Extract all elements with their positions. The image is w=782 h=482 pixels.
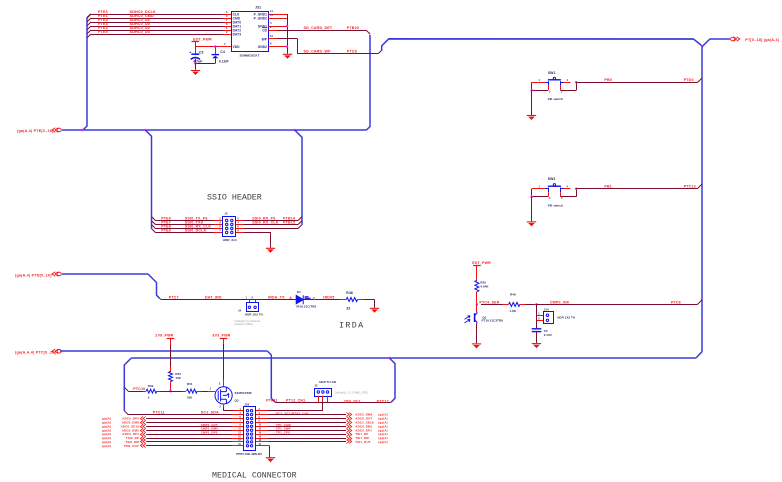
svg-text:PTA11: PTA11 [266,399,278,403]
svg-text:4: 4 [567,184,569,188]
svg-text:PTB15: PTB15 [283,221,295,225]
svg-text:P_GND2: P_GND2 [254,16,267,20]
svg-text:VDD: VDD [233,45,241,49]
text CD overline [262,27,267,29]
svg-text:IRD05: IRD05 [323,296,334,300]
svg-text:0.1UF: 0.1UF [219,59,229,63]
transistor Q3 ZXM61P03F [215,387,232,404]
wire SDHC0_D1 [87,22,91,26]
wire SD_CARD_WP [268,38,277,40]
svg-text:CMP1_DP0: CMP1_DP0 [201,431,218,435]
svg-text:3: 3 [270,21,272,25]
wire J2 pin2 down to DC1_SCL [322,402,324,411]
svg-text:11: 11 [270,9,273,13]
svg-text:SDHC0_D3: SDHC0_D3 [130,30,150,34]
svg-text:J18: J18 [244,402,249,406]
node junction SW2 left [530,195,533,198]
svg-text:EXT_PWR: EXT_PWR [472,261,491,265]
bus wire medical left leg [124,358,131,411]
wire SSIO pin8 to ground [236,232,244,234]
svg-text:2: 2 [219,381,221,385]
svg-text:J14: J14 [544,307,549,311]
svg-text:A: A [289,296,292,300]
wire SSI0_TX_FS [152,217,156,221]
node junction caps [194,62,197,64]
svg-text:R51: R51 [187,382,193,386]
wire PTA11 row [275,402,391,404]
wire SW2 to bus [576,188,697,190]
wire to J14 [536,304,538,320]
svg-text:PB switch: PB switch [548,97,563,101]
wire SSIO right row1 [236,220,244,222]
svg-text:PTE9: PTE9 [161,229,171,233]
svg-text:DAT3: DAT3 [233,32,242,36]
wire SDHC0_D0 [87,26,91,30]
svg-text:SSI0_RX_CLK: SSI0_RX_CLK [252,221,279,225]
wire GND2 stub [268,46,287,48]
wire left ADC0_DM1 [146,430,231,432]
bus wire SSIO left drop [145,130,151,229]
svg-text:200: 200 [187,396,192,400]
svg-text:J31: J31 [255,6,261,10]
wire 2V9 feed [170,338,172,345]
svg-text:SD_CARD_WP: SD_CARD_WP [304,50,332,54]
wire right ADC0_OUT [256,418,268,420]
svg-text:DAT_IRD: DAT_IRD [205,295,222,299]
svg-text:R49: R49 [148,384,154,388]
svg-text:EXT_PWR: EXT_PWR [193,37,212,41]
svg-text:CMP0_IN0: CMP0_IN0 [550,301,569,305]
node junction gate divider [169,390,172,393]
ground below J31 [283,53,292,55]
svg-text:PTC11: PTC11 [153,411,165,415]
wire SDHC0_CMD [87,18,91,22]
svg-text:14: 14 [259,431,262,434]
svg-text:PTE5: PTE5 [98,30,108,34]
svg-text:PTD0: PTD0 [684,78,694,82]
svg-text:J2: J2 [314,384,318,388]
svg-text:PTC10: PTC10 [133,387,145,391]
svg-text:D4: D4 [297,290,301,294]
svg-text:GND2: GND2 [258,45,267,49]
svg-text:4: 4 [224,42,226,46]
bus wire medical right leg [389,358,395,402]
svg-text:C3: C3 [199,50,204,54]
svg-text:WP: WP [262,37,268,41]
svg-text:HDR_2x4: HDR_2x4 [223,238,237,242]
svg-text:NoPop(1): 1:1 (70MIL_GPS): NoPop(1): 1:1 (70MIL_GPS) [335,390,368,394]
svg-text:IRDA_TX: IRDA_TX [268,295,285,299]
bus wire IRDA horizontal [62,273,148,275]
svg-text:3V3_PWR: 3V3_PWR [212,334,230,338]
svg-text:TSI1_OUT: TSI1_OUT [355,440,370,444]
connector J14 HDR 1X2 TH [537,315,544,317]
wire left TSI0_OUT [146,445,231,447]
svg-text:33: 33 [346,307,350,311]
bus wire main top y130 [62,129,367,131]
wire left TSI0_DM [146,441,231,443]
node junction GND1 [286,25,289,28]
svg-text:PB0: PB0 [604,78,612,82]
wire SSI0_TXD [152,221,156,225]
svg-text:1: 1 [539,184,541,188]
wire P_GND1 stub [268,14,287,16]
wire to Q3 gate [201,391,208,393]
svg-text:2V9_PWR: 2V9_PWR [155,334,173,338]
wire SDHC0_D2 [87,30,91,34]
svg-text:PTC8: PTC8 [347,50,357,54]
wire CMP0_IN0 to bus [537,304,698,306]
node junction SW1 right [575,81,578,84]
connector J4 HDR 1X2 TH [249,300,251,304]
wire right ADC0_DP1 [256,430,268,432]
svg-text:SW1: SW1 [548,71,556,75]
svg-text:PB switch: PB switch [548,204,563,208]
resistor R46 33 [341,299,346,301]
svg-text:SSIO HEADER: SSIO HEADER [207,194,262,203]
svg-text:(location 70MIL): (location 70MIL) [235,322,254,326]
node junction bus right-leg [388,357,391,360]
svg-text:PT[0..18] (ga(A,4): PT[0..18] (ga(A,4) [745,38,779,42]
svg-text:R48: R48 [510,292,516,296]
wire left ADC0_DP1 [146,434,231,436]
node junction PTC4_SEN [476,303,479,306]
wire junction to R51 [171,391,184,393]
svg-text:1: 1 [219,216,221,220]
wire 3V3 to Q3 source [223,338,225,344]
wire right ADC0_DM1 [256,426,268,428]
transistor Q1 phototransistor [476,304,478,312]
svg-text:(ga(A,4) PTE[0..26]: (ga(A,4) PTE[0..26] [17,129,54,133]
svg-text:SSI0_DCLK: SSI0_DCLK [185,229,207,233]
wire VDD supply [195,42,197,47]
wire comparator input [481,304,503,306]
svg-text:PTC4_SEN: PTC4_SEN [479,301,499,305]
wire SW2 to ground [531,197,533,222]
svg-text:SW2: SW2 [548,177,556,181]
bus wire SSIO right drop [295,130,302,225]
wire pin20 to ground [256,445,270,447]
wire DC1_SCL row [256,410,268,412]
svg-text:(ga(A,A,4) PTC[0..26]: (ga(A,A,4) PTC[0..26] [15,350,56,354]
node junction GND2 [286,45,289,48]
node junction SW2 right [575,187,578,190]
connector J18 PPPC102LJBN-RC [244,407,256,451]
svg-text:10: 10 [270,34,273,38]
svg-text:4: 4 [567,78,569,82]
wire SW1 to bus [576,82,697,84]
ground below J3 [266,247,275,249]
svg-text:J4: J4 [238,309,242,313]
svg-text:4.64K: 4.64K [480,284,489,288]
wire right ADC1_SE18 [256,422,268,424]
svg-text:0: 0 [148,396,150,400]
ground IRDA [370,307,379,309]
svg-text:R46: R46 [346,291,353,295]
wire SSIO right row3 [236,228,244,230]
wire GND1 stub [268,26,287,28]
svg-text:PTC7: PTC7 [169,295,179,299]
wire ground rail right of J31 [287,14,289,54]
wire SD_CARD_DET [268,30,277,32]
connector J3 HDR_2x4 [223,217,236,237]
capacitor C5 0.1UF [536,320,538,328]
wire SDHC0_DCLK [87,14,91,18]
svg-text:PTC12: PTC12 [377,399,389,403]
wire left ADC0_SE16 [146,426,231,428]
svg-text:PB1: PB1 [604,184,612,188]
svg-text:(ga(A): (ga(A) [378,440,388,444]
wire Q3 drain to J18 pin1 [223,404,225,408]
bus wire jog down to lower bus [267,351,275,402]
wire left TSI0_DP [146,438,231,440]
ground below SW2 [527,221,536,223]
bus wire bottom upper segment [60,350,267,352]
wire SW1 to ground [531,90,533,115]
svg-text:HDR 1X2 TH: HDR 1X2 TH [557,315,575,319]
wire right ADC0_DM0 [256,414,268,416]
svg-text:IRDA: IRDA [339,321,365,330]
svg-text:2: 2 [237,216,239,220]
svg-text:PTB20: PTB20 [347,26,359,30]
svg-text:6: 6 [270,42,272,46]
wire DC1_SDA row [124,411,128,415]
svg-text:PPPC102LJBN-RC: PPPC102LJBN-RC [236,452,262,456]
wire left ADC0_DM0 [146,422,231,424]
svg-text:1: 1 [210,387,212,391]
svg-text:C4: C4 [220,50,225,54]
svg-text:10K: 10K [175,376,181,380]
wire IRDA signal [160,298,161,299]
wire SSIO right row2 [236,224,244,226]
bus riser to SD card wires [83,14,91,130]
wire right TSI1_DM [256,438,268,440]
connector J31 SD/MMC socket [232,12,269,52]
svg-text:(ga(A,4) PTD[0..16]: (ga(A,4) PTD[0..16] [15,274,52,278]
bus wire right rail vertical [701,46,703,352]
bus wire top-right horizontal [382,39,694,51]
svg-text:PT12_CH1: PT12_CH1 [286,399,305,403]
svg-text:MEDICAL CONNECTOR: MEDICAL CONNECTOR [212,472,297,481]
wire to ground [195,63,197,70]
ground below C5 [532,343,541,345]
svg-text:J3: J3 [224,212,228,216]
svg-text:0.1UF: 0.1UF [544,333,553,337]
svg-text:IR19.21C/TR8: IR19.21C/TR8 [297,305,317,309]
wire SSI0_DCLK [152,229,156,233]
bus wire SD_CARD_DET vertical drop [367,35,371,130]
ground below C3 [191,70,200,72]
svg-text:DDI_SCL: DDI_SCL [344,399,361,403]
wire to junction [525,304,536,306]
wire right TSI1_DP [256,434,268,436]
wire Q1 emitter to ground [476,324,478,344]
resistor R50 4.64K [476,265,478,280]
svg-text:PTC6: PTC6 [671,301,681,305]
wire P_GND2 stub [268,18,287,20]
wire right TSI1_OUT [256,441,268,443]
svg-text:TP1_CPS: TP1_CPS [276,431,290,435]
bus wire right rail bottom corner [696,352,702,358]
svg-text:SD_CARD_DET: SD_CARD_DET [304,26,333,30]
svg-text:5: 5 [226,10,228,14]
svg-text:2: 2 [538,317,540,321]
svg-text:PTC13: PTC13 [684,184,696,188]
node junction bus SSIO-left [144,129,147,132]
node junction riser [81,129,84,132]
resistor R52 10K [170,367,172,373]
node junction VDD C4 [214,45,217,48]
capacitor C4 0.1UF [215,47,217,55]
node junction SW1 left [530,89,533,92]
wire C5 to ground [536,332,538,343]
ground below J18 [266,457,275,459]
svg-text:3: 3 [549,196,551,200]
wire cap commons [195,63,215,65]
node junction CMP0_IN0 [535,303,538,306]
svg-text:(ga(A): (ga(A) [102,444,112,448]
svg-text:1: 1 [538,311,540,315]
wire left ADC0_DP0 [146,418,231,420]
wire SSI0_RX_CLK [152,225,156,229]
svg-text:CD: CD [262,28,267,32]
svg-text:1.8K: 1.8K [510,309,517,313]
ground below SW1 [527,115,536,117]
svg-text:12: 12 [270,13,273,17]
resistor R51 200 [183,391,186,393]
bus wire bottom lower segment [131,357,696,359]
svg-text:SDMMC8CKT: SDMMC8CKT [239,53,259,57]
svg-text:PT19.21C3TR8: PT19.21C3TR8 [482,319,504,323]
wire SDHC0_D3 [87,34,91,38]
svg-text:TSI0_OUT: TSI0_OUT [124,444,139,448]
svg-text:HDR TH GD: HDR TH GD [319,380,336,384]
svg-text:HDR 1X2 TH: HDR 1X2 TH [245,313,263,317]
svg-text:3: 3 [219,404,221,408]
node junction top-right Y [694,39,731,46]
svg-text:DC1_SDA: DC1_SDA [201,411,219,415]
bus PT[0..18] right edge exit [731,37,735,41]
resistor R48 1.8K [503,304,508,306]
wire to IRDA ground [363,299,374,301]
svg-text:1: 1 [539,78,541,82]
capacitor C3 4.7uF [195,47,197,54]
svg-text:C: C [313,296,316,300]
svg-text:Q3: Q3 [235,399,239,403]
node junction bus SSIO-right [293,129,296,132]
resistor R49 0 [144,391,147,393]
svg-text:3: 3 [549,90,551,94]
wire PTC10 row [124,387,128,391]
ground below Q1 [472,343,481,345]
svg-text:ZXM61P03F: ZXM61P03F [235,391,253,395]
svg-text:9: 9 [270,25,272,29]
